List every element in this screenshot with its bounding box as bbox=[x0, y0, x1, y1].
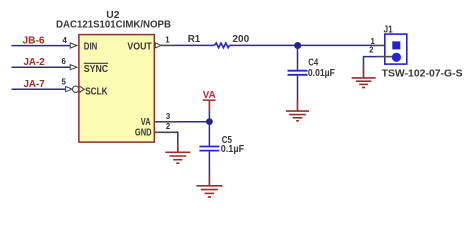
svg-text:TSW-102-07-G-S: TSW-102-07-G-S bbox=[382, 69, 463, 80]
wire C4 to ground bbox=[297, 76, 299, 99]
ground symbol below C5 bbox=[196, 176, 222, 198]
svg-text:3: 3 bbox=[166, 112, 171, 121]
svg-text:JA-2: JA-2 bbox=[24, 57, 45, 68]
connector J1 body bbox=[385, 34, 407, 64]
pin 1 stub of J1 bbox=[373, 44, 393, 46]
svg-text:JA-7: JA-7 bbox=[24, 79, 45, 90]
pin 6 arrow (SYNC input) bbox=[70, 65, 77, 70]
svg-text:SCLK: SCLK bbox=[85, 86, 108, 97]
svg-text:2: 2 bbox=[369, 45, 374, 54]
junction node at VA bbox=[206, 118, 213, 125]
pin 5 arrow (SCLK input) bbox=[66, 87, 73, 92]
svg-text:0.01µF: 0.01µF bbox=[308, 68, 335, 79]
svg-text:4: 4 bbox=[62, 36, 67, 45]
capacitor C5 bbox=[208, 122, 210, 146]
pin 2 stub (GND) bbox=[155, 131, 176, 133]
ground symbol below GND pin bbox=[165, 144, 190, 164]
J1 pin 2 pad (round) bbox=[392, 53, 401, 62]
svg-text:GND: GND bbox=[135, 128, 152, 139]
capacitor C4 bbox=[297, 46, 299, 71]
pin 1 stub bbox=[161, 44, 175, 46]
wire JA-7 to SCLK bbox=[12, 88, 66, 90]
svg-text:0.1µF: 0.1µF bbox=[221, 144, 245, 155]
svg-text:2: 2 bbox=[166, 122, 171, 131]
svg-text:VA: VA bbox=[141, 117, 151, 128]
svg-text:JB-6: JB-6 bbox=[23, 36, 45, 47]
wire GND pin to ground bbox=[176, 132, 178, 144]
ground symbol below C4 bbox=[286, 99, 309, 121]
svg-text:SYNC: SYNC bbox=[84, 64, 109, 75]
svg-text:DIN: DIN bbox=[84, 42, 98, 53]
power symbol VA bbox=[203, 90, 216, 111]
wire C5 to ground bbox=[208, 152, 210, 176]
wire J1 pin2 to ground bbox=[364, 57, 378, 66]
wire JA-2 to SYNC bbox=[12, 66, 71, 68]
clock chevron at SCLK bbox=[79, 86, 84, 93]
junction node at C4 bbox=[294, 42, 301, 49]
pin 5 inversion bubble bbox=[73, 86, 79, 92]
svg-text:200: 200 bbox=[232, 34, 249, 45]
svg-text:VA: VA bbox=[203, 90, 216, 101]
wire R1 to J1 bbox=[234, 44, 373, 46]
svg-text:VOUT: VOUT bbox=[127, 42, 152, 53]
svg-text:1: 1 bbox=[165, 35, 170, 44]
IC U2 body bbox=[79, 35, 154, 143]
svg-text:DAC121S101CIMK/NOPB: DAC121S101CIMK/NOPB bbox=[56, 19, 171, 30]
resistor R1 bbox=[209, 43, 233, 48]
pin 4 arrow (DIN input) bbox=[70, 43, 77, 48]
wire JB-6 to DIN bbox=[12, 45, 71, 47]
svg-text:J1: J1 bbox=[384, 25, 393, 36]
svg-text:6: 6 bbox=[61, 57, 66, 66]
wire VOUT to R1 bbox=[175, 44, 209, 46]
pin 1 VOUT output arrow bbox=[155, 43, 161, 48]
ground symbol below J1 bbox=[352, 66, 376, 88]
wire VA symbol to junction bbox=[208, 111, 210, 122]
wire VA pin to junction bbox=[177, 121, 210, 123]
J1 pin 1 pad (square) bbox=[392, 41, 400, 49]
svg-text:5: 5 bbox=[61, 78, 66, 87]
pin 2 stub of J1 bbox=[377, 56, 392, 58]
pin 3 stub (VA) bbox=[155, 121, 177, 123]
svg-text:R1: R1 bbox=[188, 34, 201, 45]
